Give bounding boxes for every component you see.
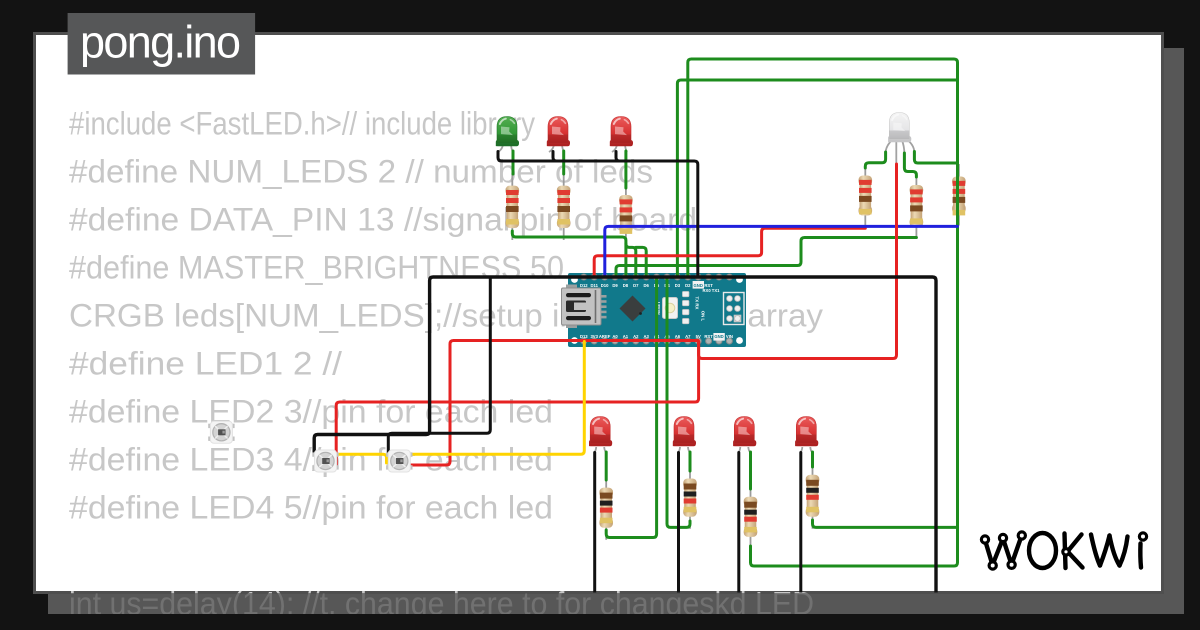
svg-text:D11: D11 — [590, 283, 598, 288]
svg-text:A1: A1 — [623, 334, 629, 339]
resistor R6 (220 ohm, RGB LED blue ch.) — [952, 164, 966, 226]
svg-text:3V3: 3V3 — [590, 334, 598, 339]
svg-text:#define LED2 3//pin for each l: #define LED2 3//pin for each led — [69, 394, 553, 430]
resistor R5 (220 ohm, RGB LED green ch.) — [910, 173, 924, 240]
svg-text:D8: D8 — [623, 283, 629, 288]
resistor R7 (1k, bottom LED1) — [599, 475, 613, 540]
wire red 5V to RGB common — [699, 164, 897, 359]
GND label boxes — [693, 281, 704, 289]
svg-text:D7: D7 — [633, 283, 639, 288]
wire green RGB blue leg to R6 — [914, 152, 957, 164]
resistor R9 (1k, bottom LED3) — [744, 484, 758, 549]
svg-text:#define LED3 4//pin for each l: #define LED3 4//pin for each led — [69, 442, 553, 478]
LED3 red — [610, 117, 633, 147]
LED2 red — [547, 117, 570, 147]
wire green D5 to R7 — [606, 277, 656, 538]
LED8 red bottom — [795, 417, 818, 447]
svg-text:TX RX: TX RX — [695, 297, 700, 310]
pin pads bottom row — [581, 338, 587, 344]
svg-text:D13: D13 — [580, 334, 588, 339]
wire green rail to D7 — [626, 244, 636, 277]
svg-text:AREF: AREF — [599, 334, 611, 339]
wire green D9 to R5 bottom — [616, 238, 916, 278]
wire black neopixel1 gnd loop — [314, 277, 936, 593]
LED7 red bottom — [733, 417, 756, 447]
wire yellow neopixel1 to neopixel2 — [337, 454, 387, 463]
wire green bottom LED3 anode — [749, 452, 752, 489]
svg-text:RX0 TX1: RX0 TX1 — [703, 288, 721, 293]
svg-text:D9: D9 — [612, 283, 618, 288]
wire green D3 inner loop — [677, 80, 957, 277]
wire black bottom LED1 cathode — [593, 453, 596, 594]
resistor R3 (220 ohm, red LED) — [619, 183, 633, 245]
svg-text:D2: D2 — [685, 283, 691, 288]
wire green RGB red leg to R4 — [865, 152, 885, 168]
wire green bottom LED2 anode — [689, 452, 692, 471]
WOKWI logo — [985, 533, 1141, 568]
resistor R1 (220 ohm, green LED) — [506, 173, 520, 240]
ICSP header — [724, 293, 745, 325]
wire green bottom LED4 anode — [811, 452, 814, 467]
wire green D2 loop to R9 — [688, 59, 958, 566]
svg-text:D3: D3 — [675, 283, 681, 288]
wire red 5V to neopixel1 — [336, 342, 698, 466]
svg-text:D6: D6 — [644, 283, 650, 288]
svg-text:#define LED1 2 //: #define LED1 2 // — [69, 346, 342, 382]
wire black neopixel2 gnd — [388, 277, 490, 453]
svg-text:GND: GND — [714, 334, 723, 339]
wire red neopixel2 to 5V — [408, 341, 699, 466]
wire green LED3 anode to R3 — [624, 151, 627, 188]
svg-text:D10: D10 — [601, 283, 609, 288]
svg-text:5V: 5V — [696, 334, 701, 339]
MCU chip (diamond) — [620, 296, 646, 322]
LED5 red bottom — [589, 417, 612, 447]
wire blue D10 to R6 bottom — [605, 226, 958, 277]
svg-text:D12: D12 — [580, 283, 588, 288]
svg-text:#define DATA_PIN 13 //signal p: #define DATA_PIN 13 //signal pin of boar… — [69, 202, 697, 238]
resistor R2 (220 ohm, red LED) — [557, 173, 571, 240]
LED1 green — [496, 117, 519, 147]
svg-text:A0: A0 — [612, 334, 618, 339]
svg-text:VIN: VIN — [726, 334, 733, 339]
wire green rail to D6 — [636, 247, 646, 277]
svg-text:GND: GND — [694, 283, 703, 288]
wire green RGB green leg to R5 — [904, 153, 916, 177]
svg-text:A2: A2 — [633, 334, 639, 339]
wire black LED2 cathode stub — [553, 152, 560, 162]
neopixel N0 (unwired) — [208, 421, 234, 443]
wire red D11 to R4 bottom — [594, 228, 865, 277]
svg-text:A7: A7 — [685, 334, 691, 339]
wire green R10 to right bus — [813, 520, 958, 527]
wire yellow D13 to neopixel2 — [410, 342, 584, 455]
wire green resistor rail to D8 — [512, 231, 626, 277]
wire green LED1 anode to R1 — [512, 151, 515, 174]
mounting holes — [571, 276, 578, 283]
resistor R10 (1k, bottom LED4) — [806, 462, 820, 529]
wire black LED cathode rail to GND — [498, 152, 698, 278]
neopixel N1 — [312, 450, 338, 472]
wire black bottom LED2 cathode — [677, 453, 680, 594]
wire black bottom LED4 cathode — [799, 453, 802, 594]
svg-text:A6: A6 — [675, 334, 681, 339]
svg-text:A3: A3 — [644, 334, 650, 339]
resistor R8 (1k, bottom LED2) — [683, 466, 697, 529]
wire green D4 to R8 — [667, 277, 690, 527]
LED legs — [498, 138, 914, 453]
resistor R4 (220 ohm, RGB LED red ch.) — [859, 163, 873, 228]
LED6 red bottom — [673, 417, 696, 447]
svg-text:pong.ino: pong.ino — [80, 17, 241, 68]
wire green LED2 anode to R2 — [562, 151, 565, 174]
Arduino Nano board U1 — [562, 273, 747, 347]
USB connector — [566, 285, 577, 290]
svg-text:#include <FastLED.h>// include: #include <FastLED.h>// include library — [69, 106, 535, 142]
pin pads top row — [581, 274, 587, 280]
neopixel N2 — [386, 450, 412, 472]
svg-text:RST: RST — [704, 334, 713, 339]
indicator LEDs TX RX ON L — [683, 292, 689, 297]
wire green bottom LED1 anode — [605, 452, 608, 480]
wire black bottom LED3 cathode — [737, 453, 740, 594]
LED4 RGB white — [888, 113, 911, 143]
wire black LED3 cathode stub — [616, 152, 623, 162]
svg-text:#define LED4 5//pin for each l: #define LED4 5//pin for each led — [69, 490, 553, 526]
svg-text:#define NUM_LEDS 2 // number o: #define NUM_LEDS 2 // number of leds — [69, 154, 653, 190]
svg-text:ON L: ON L — [701, 311, 706, 322]
title box pong.ino — [68, 13, 256, 75]
